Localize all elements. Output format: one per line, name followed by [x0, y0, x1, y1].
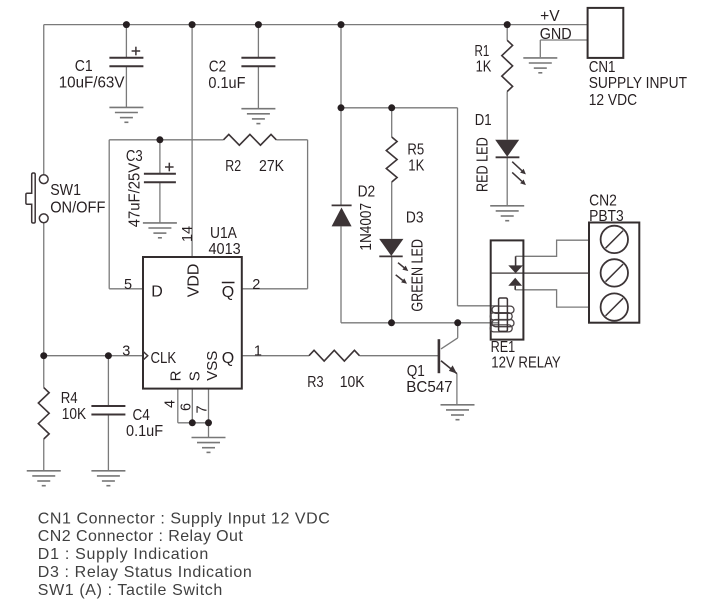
- svg-text:7: 7: [195, 405, 211, 413]
- svg-text:R3: R3: [307, 374, 323, 391]
- svg-text:4: 4: [163, 400, 179, 408]
- svg-text:1: 1: [254, 344, 262, 360]
- svg-text:VDD: VDD: [186, 264, 203, 298]
- svg-text:C3: C3: [126, 148, 143, 165]
- svg-text:PBT3: PBT3: [589, 208, 624, 225]
- svg-text:D2: D2: [358, 184, 376, 201]
- svg-text:12 VDC: 12 VDC: [589, 92, 637, 109]
- svg-text:C4: C4: [133, 407, 150, 424]
- svg-text:12V RELAY: 12V RELAY: [491, 355, 561, 372]
- svg-text:10K: 10K: [340, 374, 365, 391]
- svg-text:+V: +V: [540, 8, 560, 25]
- svg-text:D3: D3: [406, 210, 424, 227]
- svg-text:C1: C1: [75, 58, 93, 75]
- svg-text:1N4007: 1N4007: [358, 203, 375, 251]
- svg-text:1K: 1K: [476, 58, 492, 75]
- svg-text:VSS: VSS: [204, 351, 221, 381]
- svg-text:3: 3: [122, 344, 130, 360]
- svg-text:ON/OFF: ON/OFF: [50, 199, 105, 216]
- svg-text:10K: 10K: [62, 406, 87, 423]
- svg-text:0.1uF: 0.1uF: [126, 423, 163, 440]
- svg-text:GREEN LED: GREEN LED: [409, 239, 426, 312]
- svg-text:RE1: RE1: [491, 339, 516, 356]
- svg-text:SW1: SW1: [50, 182, 81, 199]
- svg-text:Q1: Q1: [407, 363, 425, 380]
- svg-text:U1A: U1A: [210, 225, 237, 242]
- svg-text:27K: 27K: [259, 158, 284, 175]
- svg-text:CN2: CN2: [589, 192, 617, 209]
- svg-text:CN1: CN1: [589, 59, 616, 76]
- svg-text:CLK: CLK: [151, 350, 177, 367]
- svg-text:6: 6: [179, 403, 195, 411]
- svg-text:5: 5: [124, 277, 132, 293]
- svg-text:10uF/63V: 10uF/63V: [59, 74, 125, 91]
- svg-text:RED LED: RED LED: [475, 137, 492, 192]
- svg-text:R5: R5: [407, 142, 424, 159]
- svg-text:R2: R2: [225, 158, 241, 175]
- svg-text:C2: C2: [209, 59, 226, 76]
- svg-text:D1 : Supply Indication: D1 : Supply Indication: [38, 546, 209, 563]
- svg-text:Q: Q: [222, 284, 234, 301]
- svg-text:R: R: [168, 370, 185, 381]
- svg-text:D1: D1: [475, 112, 492, 129]
- svg-text:4013: 4013: [209, 241, 241, 258]
- svg-text:47uF/25V: 47uF/25V: [126, 163, 143, 228]
- svg-text:GND: GND: [540, 26, 572, 43]
- svg-text:CN1 Connector : Supply Input 1: CN1 Connector : Supply Input 12 VDC: [38, 510, 330, 527]
- svg-text:R4: R4: [61, 390, 78, 407]
- svg-text:BC547: BC547: [406, 379, 452, 396]
- svg-text:D: D: [151, 284, 163, 301]
- svg-text:14: 14: [180, 226, 196, 242]
- svg-text:SUPPLY INPUT: SUPPLY INPUT: [589, 75, 687, 92]
- svg-text:Q: Q: [222, 350, 234, 367]
- svg-text:SW1 (A) : Tactile Switch: SW1 (A) : Tactile Switch: [38, 582, 223, 599]
- svg-text:S: S: [186, 371, 203, 381]
- svg-text:D3 : Relay Status Indication: D3 : Relay Status Indication: [38, 564, 252, 581]
- svg-text:1K: 1K: [408, 157, 424, 174]
- svg-text:2: 2: [252, 277, 260, 293]
- svg-text:0.1uF: 0.1uF: [208, 75, 245, 92]
- svg-text:CN2 Connector : Relay Out: CN2 Connector : Relay Out: [38, 528, 244, 545]
